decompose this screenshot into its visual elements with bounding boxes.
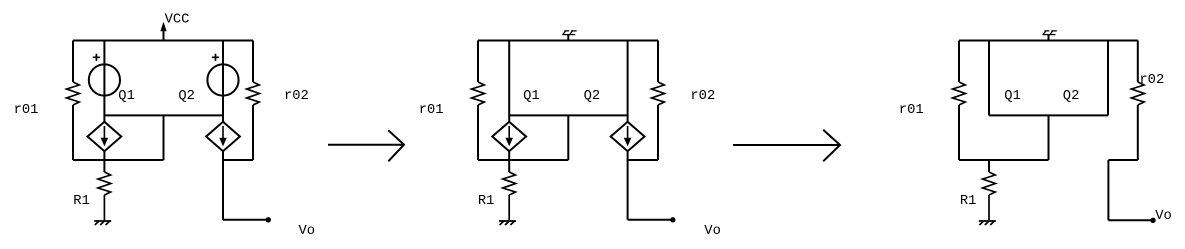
svg-text:r02: r02 (690, 89, 715, 104)
wire R1 to ground (103, 195, 105, 220)
wire R1 to ground (right) (988, 195, 990, 220)
wire left branch upper (middle) (477, 41, 479, 83)
output node dot (266, 217, 271, 222)
wire top rail (right circuit) (959, 40, 1138, 42)
wire output branch down (1107, 160, 1109, 220)
dependent current source diamond Q1 (88, 122, 122, 151)
wire right branch lower (252, 105, 254, 160)
wire center stub down (163, 115, 165, 160)
transformation arrow 2 (733, 130, 840, 162)
wire top rail (middle circuit) (478, 40, 658, 42)
resistor r01 (right circuit) (953, 82, 966, 105)
wire box right side (1107, 41, 1109, 116)
wire bottom rail left section (middle) (478, 159, 568, 161)
ground under R1 (middle) (499, 220, 516, 222)
wire output (middle) (628, 219, 673, 221)
dependent current source diamond Q2 (middle) (611, 122, 645, 151)
transformation arrow 1 (328, 130, 404, 161)
wire left branch upper (72, 41, 74, 83)
wire center stub down (middle) (567, 115, 569, 160)
voltage source circle Q1 (89, 64, 120, 95)
svg-text:VCC: VCC (165, 12, 190, 27)
wire r02 bottom jog (right) (1108, 159, 1137, 161)
wire bottom rail (right) (959, 159, 1049, 161)
wire Q2 down to output (222, 151, 224, 220)
wire top rail (left circuit) (73, 40, 253, 42)
output node dot (right) (1150, 218, 1155, 223)
svg-text:r01: r01 (14, 103, 39, 118)
wire Q1 branch (through source) (103, 41, 105, 122)
svg-text:r01: r01 (899, 103, 924, 118)
svg-text:Q2: Q2 (178, 89, 195, 104)
wire bottom rail right section (223, 159, 253, 161)
plus sign Q2 source (212, 54, 219, 61)
voltage source circle Q2 (207, 64, 238, 95)
wire right branch upper (252, 41, 254, 83)
wire box bottom (989, 114, 1108, 116)
ac ground symbol (middle circuit) (562, 31, 576, 41)
svg-text:r01: r01 (419, 103, 444, 118)
svg-text:Q2: Q2 (1063, 89, 1080, 104)
svg-text:R1: R1 (73, 194, 90, 209)
wire Q2 branch (middle) (627, 41, 629, 122)
resistor R1 (right circuit) (983, 172, 996, 195)
resistor r02 (right circuit) (1131, 82, 1144, 105)
wire right branch lower (middle) (657, 105, 659, 160)
wire left branch lower (72, 105, 74, 160)
wire center step down (right) (1048, 115, 1050, 160)
wire Q2 branch (through source) (222, 41, 224, 122)
wire bottom rail right section (middle) (628, 159, 658, 161)
wire left branch lower (right) (958, 105, 960, 160)
plus sign Q1 source (93, 54, 100, 61)
wire bottom rail left section (73, 159, 164, 161)
svg-text:r02: r02 (1139, 73, 1164, 88)
resistor r01 (middle circuit) (472, 82, 485, 105)
resistor R1 (left circuit) (98, 172, 111, 195)
resistor r02 (middle circuit) (652, 82, 665, 105)
wire base rail (middle circuit) (509, 114, 627, 116)
dependent current source diamond Q2 (206, 122, 240, 151)
resistor r01 (left circuit) (67, 82, 80, 105)
wire base rail (middle) (104, 114, 223, 116)
ground under R1 (right) (979, 220, 996, 222)
output node dot (middle) (670, 217, 675, 222)
resistor r02 (left circuit) (247, 82, 260, 105)
wire r02 branch upper (right) (1137, 41, 1139, 83)
svg-text:Vo: Vo (704, 224, 721, 239)
wire Q1 branch (middle) (508, 41, 510, 122)
svg-text:Vo: Vo (299, 224, 316, 239)
wire R1 to ground (middle) (508, 195, 510, 220)
wire box left side (988, 41, 990, 116)
wire left branch lower (middle) (477, 105, 479, 160)
svg-text:R1: R1 (478, 194, 495, 209)
wire Q2 down to output (middle) (627, 151, 629, 220)
wire left branch upper (right) (958, 41, 960, 83)
ac ground symbol (right circuit) (1043, 31, 1057, 41)
svg-text:Q2: Q2 (584, 89, 601, 104)
wire Q1 emitter down to R1 (103, 151, 105, 172)
svg-text:Q1: Q1 (523, 89, 540, 104)
dependent current source diamond Q1 (middle) (492, 122, 526, 151)
wire R1 top lead (right) (988, 160, 990, 172)
svg-text:R1: R1 (960, 194, 977, 209)
svg-text:Q1: Q1 (118, 89, 135, 104)
wire r02 branch lower (right) (1137, 105, 1139, 160)
resistor R1 (middle circuit) (503, 172, 516, 195)
svg-text:Q1: Q1 (1004, 89, 1021, 104)
wire output (223, 219, 268, 221)
wire output (right) (1108, 219, 1152, 221)
svg-text:Vo: Vo (1155, 209, 1172, 224)
wire right branch upper (middle) (657, 41, 659, 83)
wire Q1 emitter down to R1 (middle) (508, 151, 510, 172)
svg-text:r02: r02 (284, 89, 309, 104)
VCC supply arrow (161, 23, 166, 41)
ground under R1 (94, 220, 111, 222)
